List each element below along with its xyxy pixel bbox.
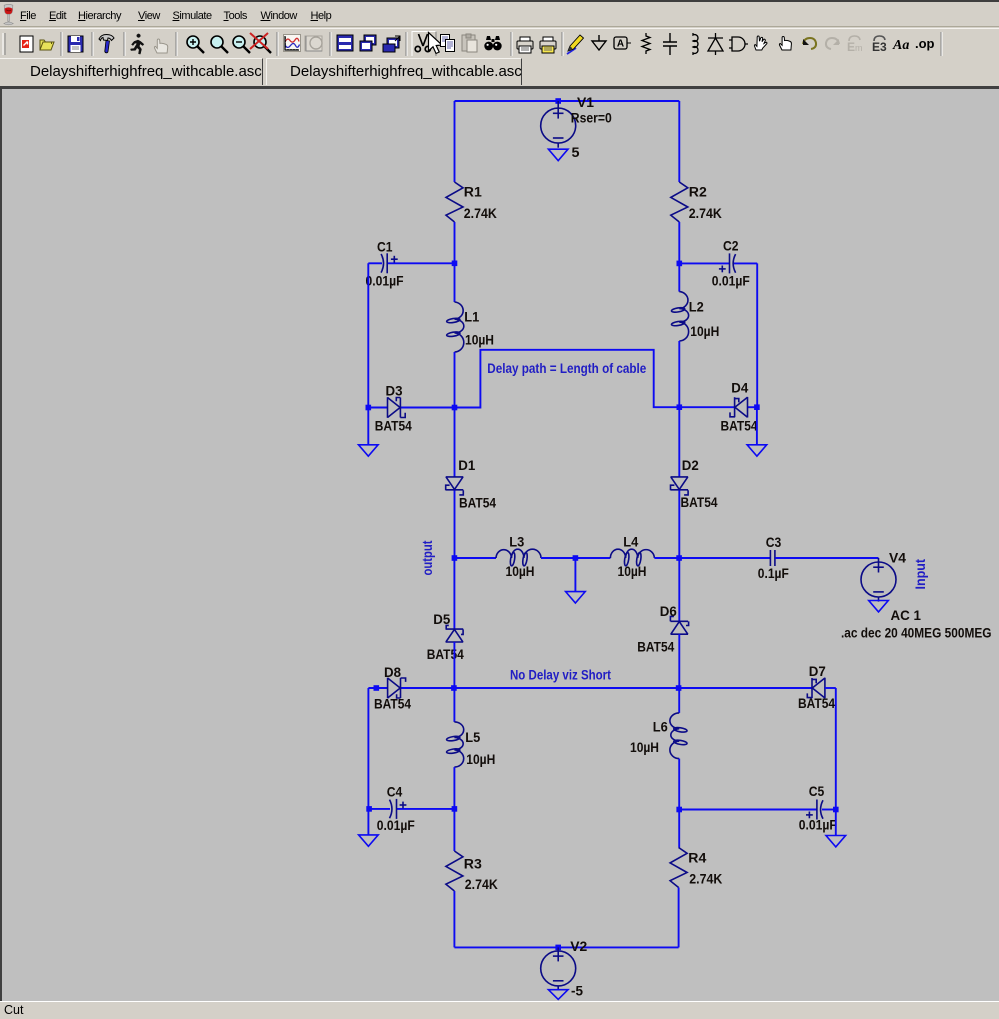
svg-text:A: A	[617, 39, 624, 50]
svg-text:C2: C2	[723, 239, 739, 254]
wire bus to L6	[678, 688, 680, 713]
svg-text:0.01µF: 0.01µF	[366, 274, 404, 289]
toolbar capacitor button	[663, 33, 677, 55]
svg-text:V4: V4	[889, 551, 907, 566]
svg-text:Input: Input	[913, 558, 928, 589]
tab 1 Delayshifterhighfreq_withcable.asc	[0, 58, 263, 85]
toolbar waveform button	[284, 35, 301, 52]
junction output node	[452, 555, 458, 561]
svg-text:Rser=0: Rser=0	[571, 111, 612, 126]
capacitor C4	[390, 799, 407, 819]
wire delay path loop	[455, 350, 735, 408]
svg-text:C3: C3	[766, 535, 782, 550]
toolbar control-panel (hammer) button	[99, 35, 114, 53]
junction D4 row left	[677, 404, 683, 410]
toolbar halt button (disabled)	[154, 39, 167, 53]
toolbar save button	[68, 36, 83, 52]
ground under D4 node	[747, 445, 767, 456]
toolbar copy button	[441, 35, 455, 52]
toolbar ground button	[592, 35, 606, 50]
wire bottom rail	[454, 946, 678, 948]
wire C1 to D3 anode rail	[367, 263, 369, 407]
svg-text:V1: V1	[577, 95, 595, 110]
junction C5 right	[833, 807, 839, 813]
toolbar inductor button	[693, 33, 698, 55]
svg-text:L4: L4	[623, 534, 639, 549]
mouse cursor	[429, 33, 443, 54]
diode D5 (BAT54 schottky)	[446, 625, 464, 642]
diode D3 (BAT54 schottky)	[388, 397, 406, 418]
LTspice window icon (wine glass)	[1, 3, 19, 29]
svg-text:No Delay viz Short: No Delay viz Short	[510, 667, 611, 682]
svg-text:D5: D5	[433, 612, 451, 627]
svg-text:AC 1: AC 1	[891, 608, 922, 623]
svg-text:2.74K: 2.74K	[464, 206, 497, 221]
ground under C4	[359, 835, 379, 846]
capacitor C5	[806, 800, 823, 820]
junction no-delay right node	[676, 685, 682, 691]
diode D6 (BAT54 schottky)	[670, 616, 688, 634]
svg-text:L6: L6	[653, 720, 668, 735]
wire L4 to C3	[654, 557, 770, 559]
svg-text:R3: R3	[464, 857, 482, 872]
svg-text:R4: R4	[688, 851, 707, 866]
junction no-delay left node	[451, 685, 457, 691]
junction D3 cathode node	[452, 405, 458, 411]
svg-text:D6: D6	[660, 604, 677, 619]
capacitor C3	[770, 550, 775, 566]
resistor R1	[446, 182, 463, 222]
toolbar zoom-extents button	[250, 33, 271, 53]
svg-text:10µH: 10µH	[466, 752, 495, 767]
toolbar edit-model button (disabled)	[847, 36, 863, 54]
junction D3 anode corner	[366, 405, 372, 411]
wire L1 to D3 row	[454, 352, 456, 408]
wire R4 to bottom rail	[678, 888, 680, 948]
wire D3 node to D1	[454, 408, 456, 477]
inductor L1	[446, 302, 463, 352]
svg-text:2.74K: 2.74K	[465, 877, 498, 892]
resistor R4	[670, 848, 687, 888]
toolbar zoom-full button	[211, 36, 228, 53]
wire R3 to bottom rail	[453, 891, 455, 947]
toolbar restore button	[383, 36, 400, 52]
svg-text:.op: .op	[915, 36, 935, 51]
ground under C5	[826, 836, 846, 847]
wire left rail to R1	[454, 101, 456, 182]
toolbar net-label button	[614, 37, 631, 50]
ground mid bus	[566, 592, 586, 603]
toolbar find button	[484, 36, 501, 50]
wire D7 anode lead	[825, 687, 836, 689]
toolbar cut button (hovered) with scissors	[412, 32, 436, 57]
junction C1 right	[452, 261, 458, 267]
toolbar move button	[754, 36, 767, 50]
svg-text:V2: V2	[570, 939, 587, 954]
toolbar undo button	[803, 38, 816, 49]
wire D3 cathode lead	[401, 407, 455, 409]
wire D4 row to D2	[678, 407, 680, 477]
toolbar drag button	[779, 37, 791, 51]
svg-text:E: E	[847, 40, 855, 54]
wire L2 to D4 row	[678, 341, 680, 407]
svg-text:C4: C4	[387, 784, 403, 799]
toolbar diode button	[708, 33, 723, 55]
junction D8 anode pin	[374, 685, 380, 691]
svg-text:3: 3	[880, 40, 887, 54]
toolbar zoom-out button	[233, 36, 250, 53]
wire C5 row left	[679, 809, 817, 811]
ground under V2	[548, 990, 568, 1000]
wire D8 to C4 rail	[367, 688, 369, 809]
voltage source V4	[861, 558, 896, 602]
toolbar waveform-clock button (disabled)	[305, 36, 322, 51]
wire L6 to R4	[678, 759, 680, 848]
wire C1 row right	[387, 262, 454, 264]
wire D1 to output bus	[454, 490, 456, 558]
svg-text:D3: D3	[386, 384, 403, 399]
svg-text:BAT54: BAT54	[681, 495, 718, 510]
svg-text:m: m	[855, 43, 863, 53]
svg-text:0.01µF: 0.01µF	[799, 818, 837, 833]
diode D1 (BAT54 schottky)	[446, 477, 464, 495]
inductor L6	[670, 713, 687, 759]
wire output bus to D5	[453, 558, 455, 629]
svg-text:D2: D2	[682, 458, 699, 473]
toolbar run button	[131, 34, 144, 54]
svg-text:-5: -5	[571, 984, 584, 999]
svg-text:0.1µF: 0.1µF	[758, 566, 789, 581]
capacitor C2	[719, 253, 736, 273]
junction D2/D6 bus node	[676, 555, 682, 561]
junction mid bus	[573, 555, 579, 561]
wire bus to L3	[454, 557, 496, 559]
junction C2 left	[677, 261, 683, 267]
toolbar	[0, 28, 999, 57]
svg-text:BAT54: BAT54	[375, 419, 412, 434]
wire D4 node to ground	[756, 407, 758, 445]
ground under V1	[548, 149, 568, 160]
wire D2 to bus	[678, 490, 680, 558]
toolbar tile button	[337, 35, 353, 51]
resistor R3	[446, 851, 463, 891]
svg-text:5: 5	[572, 145, 581, 160]
toolbar redo button (disabled)	[826, 38, 839, 49]
junction V1 top	[555, 98, 561, 104]
svg-text:.ac dec 20 40MEG 500MEG: .ac dec 20 40MEG 500MEG	[841, 625, 992, 640]
wire C4 row left	[368, 808, 390, 810]
wire C2 row left	[679, 262, 729, 264]
toolbar gripper	[3, 33, 5, 55]
wire C5 to ground	[835, 810, 837, 836]
wire C2 row right	[734, 262, 757, 264]
capacitor C1	[381, 253, 398, 273]
wire D6 to no-delay bus	[678, 634, 680, 688]
junction C4 right / L5 rail	[452, 806, 458, 812]
wire no-delay bus	[401, 687, 812, 689]
wire C1 row left	[368, 262, 382, 264]
wire C4 row right	[397, 808, 455, 810]
wire right rail to R2	[678, 101, 680, 182]
wire mid bus to ground	[574, 558, 576, 592]
ground under D3 node	[359, 445, 379, 456]
voltage source V2	[541, 947, 576, 990]
junction D4 cathode corner	[754, 404, 760, 410]
svg-text:L2: L2	[689, 300, 704, 315]
toolbar open button	[40, 40, 54, 50]
svg-text:2.74K: 2.74K	[689, 206, 722, 221]
toolbar new-schematic button	[20, 36, 33, 52]
wire top rail V1 to R1/R2	[455, 100, 680, 102]
svg-text:10µH: 10µH	[506, 564, 535, 579]
toolbar edit-subcircuit button	[872, 36, 887, 54]
svg-text:C1: C1	[377, 240, 393, 255]
toolbar cascade button	[360, 35, 376, 51]
inductor L4	[610, 549, 654, 566]
toolbar print-setup button	[517, 37, 533, 53]
svg-text:BAT54: BAT54	[427, 647, 464, 662]
svg-text:D8: D8	[384, 665, 402, 680]
svg-text:Delay path = Length of cable: Delay path = Length of cable	[487, 361, 646, 376]
diode D2 (BAT54 schottky)	[671, 477, 689, 495]
status bar	[0, 1001, 999, 1019]
wire D3 anode lead	[368, 407, 387, 409]
resistor R2	[671, 182, 688, 222]
junction V2 top	[555, 945, 561, 951]
svg-text:BAT54: BAT54	[798, 696, 835, 711]
wire D5 to no-delay bus	[453, 642, 455, 688]
tab 2 Delayshifterhighfreq_withcable.asc	[266, 58, 522, 85]
wire C4 to ground	[367, 809, 369, 835]
wire L5 to R3	[453, 767, 455, 851]
junction C5 left / L6 rail	[676, 807, 682, 813]
wire D8 anode lead	[368, 687, 387, 689]
diode D8 (BAT54 schottky)	[388, 678, 406, 699]
wire bus to L5	[453, 688, 455, 722]
svg-text:10µH: 10µH	[465, 333, 494, 348]
diode D7 (BAT54 schottky)	[807, 678, 825, 699]
svg-text:D4: D4	[731, 381, 749, 396]
toolbar wire (pencil) button	[567, 35, 584, 54]
diode D4 (BAT54 schottky)	[730, 397, 748, 418]
inductor L5	[446, 722, 463, 767]
wire R1 to L1	[454, 222, 456, 302]
svg-text:0.01µF: 0.01µF	[712, 274, 750, 289]
inductor L3	[496, 549, 541, 566]
wire C3 to V4	[775, 557, 878, 559]
menu bar	[0, 0, 999, 27]
svg-text:Aa: Aa	[892, 38, 909, 53]
svg-text:output: output	[420, 540, 435, 575]
inductor L2	[671, 292, 688, 341]
svg-text:10µH: 10µH	[690, 324, 719, 339]
svg-text:BAT54: BAT54	[637, 639, 674, 654]
voltage source V1	[541, 101, 576, 148]
wire C5 row right	[822, 809, 836, 811]
toolbar resistor button	[642, 33, 650, 54]
junction C4 left	[366, 806, 372, 812]
svg-text:BAT54: BAT54	[459, 495, 496, 510]
svg-text:0.01µF: 0.01µF	[377, 818, 415, 833]
svg-text:BAT54: BAT54	[721, 419, 758, 434]
svg-text:L1: L1	[464, 310, 480, 325]
svg-text:10µH: 10µH	[630, 740, 659, 755]
svg-text:D1: D1	[458, 458, 476, 473]
toolbar print button	[540, 37, 556, 53]
svg-text:10µH: 10µH	[618, 564, 647, 579]
svg-text:R1: R1	[464, 185, 483, 200]
wire R2 to L2	[678, 222, 680, 292]
svg-text:E: E	[872, 40, 880, 54]
wire bus to D6	[678, 558, 680, 621]
toolbar component button	[729, 37, 748, 51]
svg-text:R2: R2	[689, 185, 707, 200]
tab strip	[0, 56, 999, 86]
svg-text:BAT54: BAT54	[374, 697, 411, 712]
wire D7 to C5 rail	[835, 688, 837, 810]
wire L3 to L4	[541, 557, 610, 559]
wire C2 to D4 cathode rail	[756, 263, 758, 407]
wire D3 node to ground	[367, 408, 369, 445]
svg-text:L3: L3	[509, 534, 524, 549]
toolbar paste button (disabled)	[462, 34, 477, 52]
ground under V4	[869, 601, 889, 612]
svg-text:L5: L5	[465, 730, 481, 745]
toolbar zoom-in button	[187, 36, 204, 53]
svg-text:D7: D7	[809, 664, 826, 679]
wire D4 anode lead	[748, 406, 757, 408]
svg-text:2.74K: 2.74K	[689, 872, 722, 887]
svg-text:C5: C5	[809, 784, 825, 799]
